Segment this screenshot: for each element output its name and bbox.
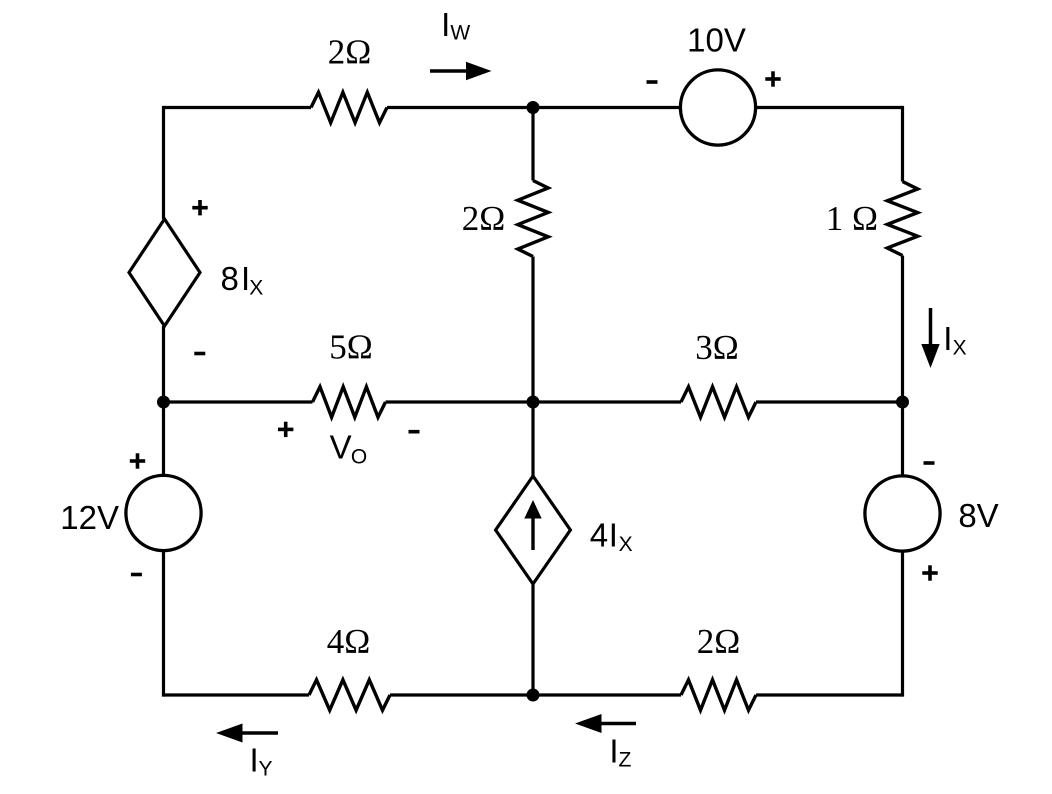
voltage source 12V circle — [126, 475, 201, 550]
node middle-left — [157, 396, 170, 409]
node middle-right — [896, 396, 909, 409]
resistor 2ohm top — [311, 92, 387, 122]
wire mid rail upper — [531, 108, 534, 181]
wire right rail middle — [901, 256, 904, 476]
svg-text:3Ω: 3Ω — [695, 328, 739, 367]
4Ix arrow head — [524, 500, 541, 519]
wire top-right — [756, 106, 903, 109]
arrow Iy head — [216, 724, 243, 743]
svg-text:10V: 10V — [687, 22, 746, 59]
plus sign 12V top — [130, 453, 145, 468]
svg-text:4Ω: 4Ω — [327, 622, 371, 661]
arrow Ix shaft — [929, 308, 933, 348]
wire bottom-left — [164, 693, 310, 696]
node bottom-middle — [527, 689, 540, 702]
minus sign 12V bottom — [131, 573, 142, 577]
minus sign 8Ix bottom — [194, 352, 205, 356]
resistor 2ohm middle vertical — [518, 181, 548, 257]
wire top-middle — [387, 106, 680, 109]
minus sign Vo — [409, 430, 420, 434]
svg-text:5Ω: 5Ω — [329, 328, 373, 367]
voltage source 10V circle — [680, 70, 755, 145]
resistor 1ohm right vertical — [887, 182, 917, 256]
svg-text:12V: 12V — [60, 499, 119, 536]
4Ix arrow shaft — [531, 518, 534, 550]
wire left rail lower — [162, 551, 165, 697]
svg-text:1 Ω: 1 Ω — [826, 199, 878, 238]
node top-middle — [527, 101, 540, 114]
plus sign Vo — [278, 422, 293, 437]
resistor 5ohm — [313, 387, 386, 417]
wire left rail middle — [162, 326, 165, 475]
dependent source 4Ix diamond — [496, 476, 571, 584]
wire middle-right — [756, 400, 903, 403]
wire mid rail lower — [531, 584, 534, 695]
svg-text:2Ω: 2Ω — [328, 33, 372, 72]
dependent source 8Ix diamond — [129, 219, 200, 326]
wire middle-left — [164, 400, 313, 403]
wire right rail upper — [901, 106, 904, 182]
minus sign 10V left — [647, 80, 658, 84]
arrow Iw head — [466, 62, 492, 81]
plus sign 8V bottom — [922, 565, 937, 580]
wire bottom-middle — [390, 693, 681, 696]
minus sign 8V top — [924, 461, 935, 465]
voltage source 8V circle — [865, 476, 940, 551]
svg-text:8V: 8V — [958, 497, 998, 534]
svg-text:2Ω: 2Ω — [462, 199, 506, 238]
resistor 3ohm — [681, 387, 756, 417]
arrow Iw shaft — [430, 69, 470, 73]
resistor 4ohm — [309, 680, 390, 710]
resistor 2ohm bottom — [681, 680, 756, 710]
node middle-center — [527, 396, 540, 409]
arrow Iz head — [575, 714, 602, 733]
wire middle-center — [386, 400, 682, 403]
wire left rail upper — [162, 106, 165, 219]
wire top-left — [164, 106, 312, 109]
arrow Iz shaft — [600, 722, 636, 726]
wire right rail lower — [901, 551, 904, 697]
arrow Iy shaft — [240, 731, 278, 735]
plus sign 8Ix top — [192, 200, 207, 215]
plus sign 10V right — [765, 71, 780, 86]
wire mid rail middle — [531, 257, 534, 477]
svg-text:2Ω: 2Ω — [697, 622, 741, 661]
arrow Ix head — [921, 344, 939, 368]
wire bottom-right — [756, 693, 903, 696]
